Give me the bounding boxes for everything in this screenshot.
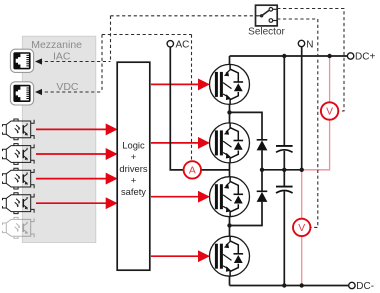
optocoupler U5 <box>3 193 35 214</box>
junction D1-D2 midline <box>260 168 264 172</box>
diode D2 <box>257 191 268 202</box>
svg-text:IAC: IAC <box>53 51 71 63</box>
connector J1 <box>10 49 33 72</box>
node N <box>298 40 304 46</box>
svg-text:V: V <box>326 107 333 118</box>
red arrow opto3 to logic <box>36 178 116 180</box>
wire Q1-Q2 <box>229 104 231 123</box>
wire N vertical <box>301 47 303 170</box>
wire dashed IAC arrow <box>39 61 111 63</box>
wire dashed top bus H1 <box>111 15 256 17</box>
red arrow gate Q3 <box>151 196 208 198</box>
wire DC+ rail <box>230 55 348 57</box>
transistor Q3 <box>210 177 250 217</box>
junction V2 sense DC- rail <box>300 283 304 287</box>
red arrow gate Q4 <box>151 255 208 257</box>
wire Q4 emitter <box>229 276 231 285</box>
red arrow gate Q2 <box>151 142 208 144</box>
wire dashed vertical V2 <box>101 35 103 93</box>
junction V1 sense DC+ rail <box>327 54 331 58</box>
transistor Q1 <box>210 64 250 104</box>
wire Q3-Q4 <box>229 217 231 237</box>
node AC <box>167 41 173 47</box>
svg-text:drivers: drivers <box>119 163 147 174</box>
wire dashed H3 to ammeter <box>102 34 192 36</box>
capacitor C2 <box>276 187 293 193</box>
voltmeter V1 upper <box>321 102 338 119</box>
wire clamp D2 branch <box>230 202 263 226</box>
svg-text:safety: safety <box>121 186 146 197</box>
svg-text:DC-: DC- <box>356 281 374 292</box>
wire dashed selector out lower <box>277 19 318 227</box>
wire midline to C2 <box>283 170 285 187</box>
optocoupler U3 <box>3 144 35 165</box>
wire Q2-Q3 <box>229 163 231 177</box>
red sense wire upper <box>329 56 331 102</box>
wire dashed vertical V3 to ammeter <box>191 35 193 162</box>
junction N midline <box>300 168 304 172</box>
junction C1-C2 midline <box>282 168 286 172</box>
wire Q1 collector <box>229 56 231 64</box>
wire cap column top <box>283 56 285 146</box>
svg-text:V: V <box>298 223 305 234</box>
wire midline black <box>262 169 302 171</box>
transistor Q4 <box>210 236 250 276</box>
wire D2 to midline <box>261 170 263 192</box>
svg-text:AC: AC <box>176 40 190 51</box>
svg-text:Selector: Selector <box>248 26 285 37</box>
svg-text:+: + <box>131 174 137 185</box>
wire C2 to DC- rail <box>283 191 285 285</box>
selector S1 <box>256 5 278 26</box>
junction C1 DC+ rail <box>282 54 286 58</box>
wire ammeter to midpoint <box>201 169 230 171</box>
wire D1 to midline <box>261 150 263 170</box>
node DC- <box>349 282 355 288</box>
svg-text:DC+: DC+ <box>355 52 375 63</box>
ammeter A1 <box>184 161 201 178</box>
svg-text:+: + <box>131 151 137 162</box>
wire DC- rail <box>230 285 349 287</box>
wire AC vertical <box>170 47 183 170</box>
red arrow opto4 to logic <box>36 202 116 204</box>
node DC+ <box>347 53 353 59</box>
svg-text:VDC: VDC <box>56 81 79 93</box>
transistor Q2 <box>210 123 250 163</box>
wire C1 to midline <box>283 151 285 170</box>
svg-text:Mezzanine: Mezzanine <box>31 39 82 51</box>
capacitor C1 <box>276 146 293 152</box>
connector J2 <box>10 82 33 105</box>
red sense wire lower <box>301 170 303 219</box>
svg-text:A: A <box>189 166 196 177</box>
red arrow gate Q1 <box>151 83 208 85</box>
junction Q3-Q4 to D2 <box>227 223 231 227</box>
wire dashed VDC arrow <box>39 91 102 93</box>
diode D1 <box>257 140 268 151</box>
voltmeter V2 lower <box>293 219 310 236</box>
mezzanine panel <box>22 36 96 242</box>
svg-text:N: N <box>306 39 313 50</box>
wire clamp D1 branch <box>230 112 263 140</box>
optocoupler U6 spare faded <box>3 217 35 238</box>
junction Q1-Q2 to D1 <box>227 110 231 114</box>
optocoupler U2 <box>3 119 35 140</box>
red arrow opto1 to logic <box>36 128 116 130</box>
svg-text:Logic: Logic <box>122 140 145 151</box>
logic drivers safety box U1 <box>117 62 150 270</box>
wire dashed vertical V1 <box>110 16 112 62</box>
junction C2 DC- rail <box>282 283 286 287</box>
red arrow opto2 to logic <box>36 153 116 155</box>
optocoupler U4 <box>3 168 35 189</box>
wire dashed selector out upper <box>277 9 344 112</box>
